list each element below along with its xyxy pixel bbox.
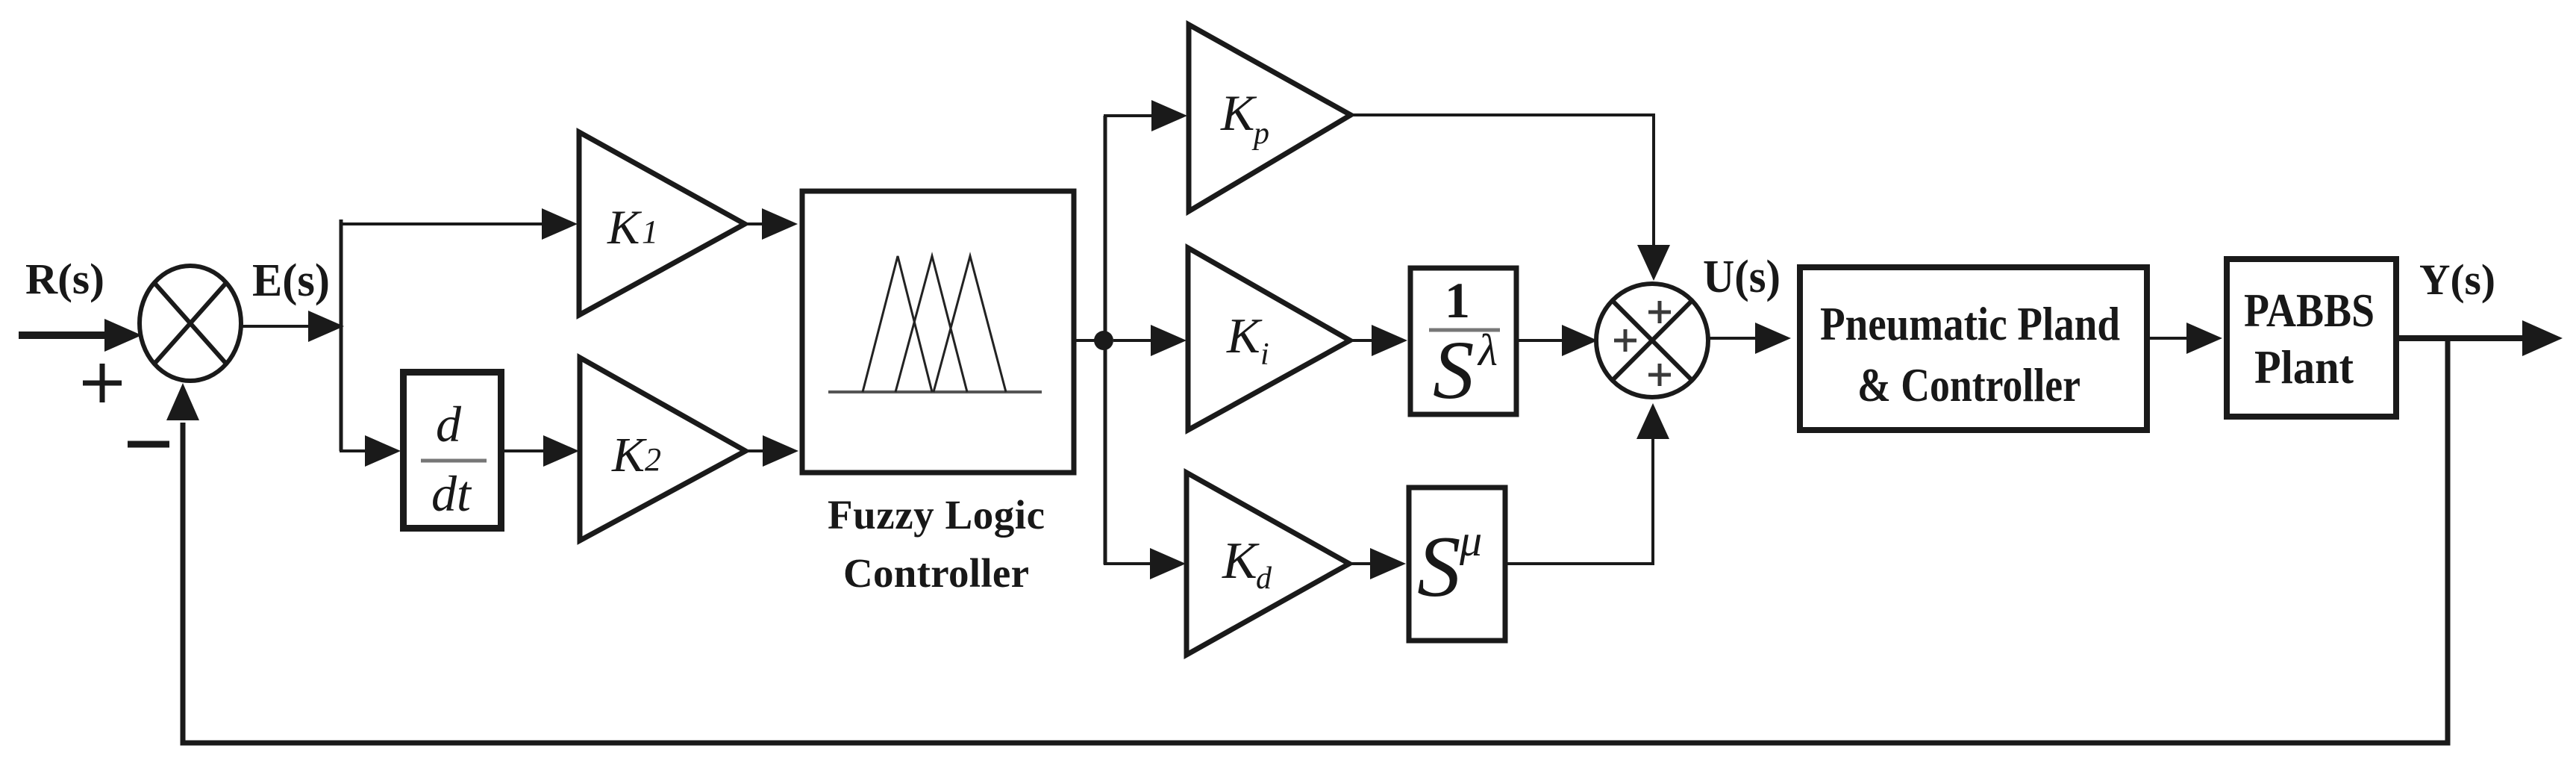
svg-text:d: d	[436, 396, 462, 452]
svg-text:dt: dt	[431, 465, 472, 522]
svg-text:K: K	[611, 428, 647, 482]
wire E(s): S1 to branch point	[240, 311, 344, 342]
svg-text:& Controller: & Controller	[1857, 358, 2081, 411]
wire 1/S^lambda to S2	[1519, 325, 1598, 356]
wire node to Kd	[1104, 548, 1186, 579]
wire R(s) input	[19, 319, 142, 352]
block d/dt	[404, 373, 501, 529]
wire Pneumatic to PABBS	[2150, 323, 2222, 354]
svg-text:K: K	[1220, 84, 1257, 141]
svg-text:U(s): U(s)	[1703, 252, 1781, 302]
svg-text:S: S	[1417, 519, 1461, 615]
membership function baseline	[828, 390, 1042, 393]
label plus left (S2)	[1614, 329, 1636, 352]
wire node to Ki	[1113, 325, 1187, 356]
svg-text:Pneumatic Pland: Pneumatic Pland	[1820, 297, 2120, 350]
membership triangle 1	[863, 256, 932, 392]
svg-text:K: K	[1222, 532, 1260, 590]
svg-text:p: p	[1251, 116, 1269, 151]
svg-text:K: K	[1226, 308, 1263, 364]
summing junction S2	[1596, 284, 1708, 397]
label plus bottom (S2)	[1648, 364, 1671, 386]
svg-text:λ: λ	[1477, 326, 1498, 375]
block S^mu	[1409, 488, 1505, 641]
wire Ki to 1/S^lambda	[1348, 325, 1407, 356]
summing junction S1	[140, 266, 241, 381]
svg-text:2: 2	[645, 441, 661, 478]
svg-text:d: d	[1256, 561, 1272, 596]
membership triangle 3	[934, 256, 1006, 392]
wire S2 to Pneumatic block	[1708, 323, 1791, 354]
label minus (S1)	[128, 441, 169, 448]
wire K1 to FLC	[743, 208, 798, 240]
svg-text:μ: μ	[1459, 516, 1482, 565]
gain Kp	[1189, 25, 1351, 211]
label d/dt	[431, 396, 472, 522]
label plus top (S2)	[1648, 301, 1671, 323]
wire branch down to d/dt	[340, 435, 401, 467]
node junction dot	[1094, 331, 1113, 350]
gain K2	[580, 358, 745, 541]
fraction bar 1/S^lambda	[1429, 329, 1500, 332]
wire S^mu to S2	[1505, 403, 1669, 564]
wire node to Kp	[1104, 100, 1187, 131]
gain Ki	[1188, 248, 1350, 430]
block Pneumatic Pland & Controller	[1800, 267, 2147, 430]
block PABBS Plant	[2227, 259, 2396, 417]
wire Kd to S^mu	[1348, 548, 1406, 579]
wire feedback	[166, 340, 2448, 743]
svg-text:i: i	[1260, 337, 1269, 372]
svg-text:K: K	[607, 201, 643, 255]
fraction bar d/dt	[421, 459, 487, 463]
block Fuzzy Logic Controller	[802, 191, 1074, 473]
gain K1	[579, 132, 745, 315]
svg-text:Plant: Plant	[2254, 340, 2354, 393]
wire branch up to K1	[340, 208, 578, 240]
svg-text:Controller: Controller	[843, 550, 1029, 596]
membership triangle 2	[895, 256, 967, 392]
svg-text:1: 1	[1445, 272, 1470, 329]
wire d/dt to K2	[504, 435, 579, 467]
gain Kd	[1187, 473, 1349, 655]
svg-text:Fuzzy Logic: Fuzzy Logic	[828, 492, 1045, 538]
svg-text:E(s): E(s)	[252, 255, 330, 306]
wire branch vertical E	[340, 220, 343, 451]
wire Kp to S2	[1349, 115, 1670, 281]
svg-text:S: S	[1433, 325, 1475, 417]
svg-text:PABBS: PABBS	[2244, 284, 2375, 337]
wire branch vertical node	[1104, 116, 1107, 564]
wire FLC to node	[1076, 339, 1104, 342]
svg-text:1: 1	[642, 214, 658, 250]
label plus (S1)	[83, 364, 122, 402]
wire K2 to FLC	[744, 435, 798, 467]
svg-text:R(s): R(s)	[25, 255, 104, 303]
wire PABBS to output Y(s)	[2399, 320, 2563, 356]
block 1/S^lambda	[1410, 268, 1516, 414]
svg-text:Y(s): Y(s)	[2419, 255, 2495, 304]
